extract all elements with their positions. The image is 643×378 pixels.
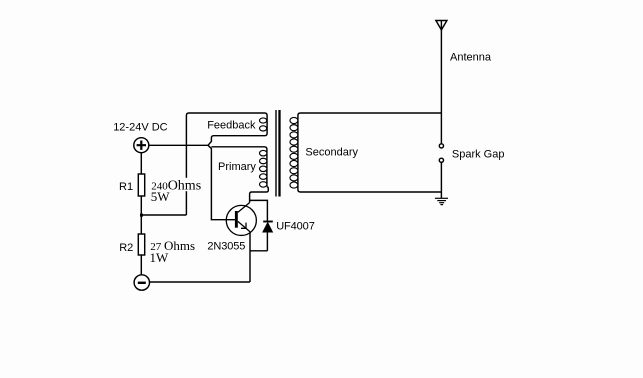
svg-text:Secondary: Secondary	[305, 147, 358, 159]
svg-text:R2: R2	[119, 242, 133, 254]
svg-text:12-24V DC: 12-24V DC	[113, 122, 167, 134]
svg-text:Spark Gap: Spark Gap	[452, 149, 505, 161]
svg-text:UF4007: UF4007	[276, 220, 315, 232]
svg-text:Primary: Primary	[218, 161, 256, 173]
svg-text:Feedback: Feedback	[207, 120, 256, 132]
svg-text:R1: R1	[119, 181, 133, 193]
svg-text:1W: 1W	[150, 250, 170, 265]
svg-text:Antenna: Antenna	[450, 51, 492, 63]
svg-text:5W: 5W	[151, 189, 171, 204]
svg-text:2N3055: 2N3055	[207, 240, 245, 252]
